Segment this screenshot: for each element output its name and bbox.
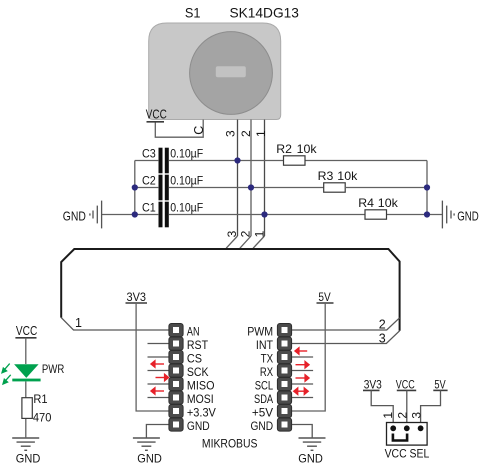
svg-text:C2: C2 xyxy=(142,174,156,188)
svg-text:R4: R4 xyxy=(358,196,374,210)
svg-text:SCK: SCK xyxy=(187,365,209,379)
svg-text:RX: RX xyxy=(260,365,273,379)
svg-text:PWM: PWM xyxy=(247,324,273,338)
svg-text:2: 2 xyxy=(239,130,253,137)
svg-text:TX: TX xyxy=(261,351,274,365)
svg-text:3V3: 3V3 xyxy=(364,377,382,391)
svg-text:3: 3 xyxy=(225,230,239,237)
svg-text:R1: R1 xyxy=(33,392,47,406)
svg-text:0.10µF: 0.10µF xyxy=(170,201,203,215)
svg-text:5V: 5V xyxy=(434,377,445,391)
svg-text:SK14DG13: SK14DG13 xyxy=(230,5,300,21)
svg-text:470: 470 xyxy=(33,411,52,425)
svg-text:VCC: VCC xyxy=(396,377,415,391)
svg-text:RST: RST xyxy=(187,338,209,352)
svg-text:C: C xyxy=(192,126,206,135)
svg-text:2: 2 xyxy=(379,318,386,332)
svg-text:1: 1 xyxy=(75,316,82,330)
svg-text:1: 1 xyxy=(254,130,268,137)
svg-text:3: 3 xyxy=(224,130,238,137)
svg-text:0.10µF: 0.10µF xyxy=(170,174,203,188)
svg-text:C3: C3 xyxy=(142,147,156,161)
svg-text:SCL: SCL xyxy=(255,378,274,392)
svg-text:R3: R3 xyxy=(318,169,334,183)
svg-text:AN: AN xyxy=(187,324,200,338)
svg-text:3V3: 3V3 xyxy=(127,290,147,304)
svg-text:3: 3 xyxy=(409,412,423,419)
svg-text:SDA: SDA xyxy=(254,392,273,406)
svg-text:+3.3V: +3.3V xyxy=(187,405,216,419)
svg-text:0.10µF: 0.10µF xyxy=(170,147,203,161)
svg-text:MOSI: MOSI xyxy=(187,392,214,406)
svg-text:GND: GND xyxy=(16,452,41,466)
svg-text:2: 2 xyxy=(396,412,410,419)
svg-text:3: 3 xyxy=(379,331,386,345)
svg-text:1: 1 xyxy=(381,412,395,419)
svg-text:GND: GND xyxy=(251,419,274,433)
svg-text:MIKROBUS: MIKROBUS xyxy=(202,437,258,451)
svg-text:1: 1 xyxy=(253,230,267,237)
svg-text:10k: 10k xyxy=(378,196,399,210)
svg-text:VCC: VCC xyxy=(146,108,167,122)
svg-text:INT: INT xyxy=(256,338,274,352)
svg-text:GND: GND xyxy=(298,452,323,466)
svg-text:R2: R2 xyxy=(276,142,292,156)
svg-text:10k: 10k xyxy=(297,142,318,156)
svg-text:GND: GND xyxy=(137,452,162,466)
svg-text:MISO: MISO xyxy=(187,378,215,392)
svg-text:2: 2 xyxy=(239,230,253,237)
svg-text:GND: GND xyxy=(187,419,210,433)
svg-text:5V: 5V xyxy=(318,290,330,304)
svg-text:S1: S1 xyxy=(185,5,201,21)
svg-text:PWR: PWR xyxy=(42,363,64,376)
svg-text:10k: 10k xyxy=(337,169,358,183)
svg-text:+5V: +5V xyxy=(252,405,273,419)
svg-text:GND: GND xyxy=(63,210,86,224)
svg-text:CS: CS xyxy=(187,351,202,365)
svg-text:C1: C1 xyxy=(142,201,156,215)
svg-text:VCC SEL: VCC SEL xyxy=(385,446,430,460)
svg-text:GND: GND xyxy=(457,210,479,224)
svg-text:VCC: VCC xyxy=(16,324,37,338)
